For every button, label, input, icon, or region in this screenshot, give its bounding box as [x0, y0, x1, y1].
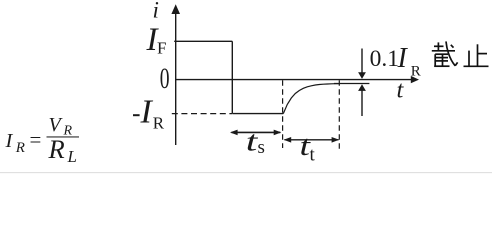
svg-text:I: I [5, 130, 14, 152]
dashed vertical at end of ts [282, 80, 284, 148]
waveform: falling edge [231, 41, 233, 113]
svg-text:I: I [397, 43, 409, 74]
waveform: recovery curve [283, 84, 339, 114]
svg-text:0.1: 0.1 [370, 46, 399, 72]
svg-text:F: F [157, 39, 166, 58]
svg-text:t: t [397, 76, 405, 103]
svg-text:s: s [258, 137, 265, 158]
svg-text:R: R [411, 63, 421, 79]
svg-text:=: = [30, 128, 42, 152]
0.1IR level line [334, 83, 369, 85]
svg-text:R: R [153, 113, 165, 132]
time axis t (horizontal) [175, 79, 412, 81]
ts interval arrow [232, 131, 281, 133]
waveform: reverse current level -IR [232, 113, 283, 115]
formula IR = VR / RL [5, 114, 80, 166]
止 [477, 44, 479, 66]
waveform: forward current level IF [174, 40, 232, 42]
current axis arrowhead [171, 4, 180, 14]
svg-text:0: 0 [160, 62, 170, 95]
dashed vertical at end of tt [338, 80, 340, 150]
svg-text:R: R [48, 134, 65, 164]
svg-text:i: i [153, 0, 159, 23]
svg-text:I: I [140, 93, 154, 130]
time axis arrowhead [411, 76, 419, 83]
0.1IR up arrow [361, 91, 363, 117]
截 [434, 45, 444, 47]
svg-text:t: t [310, 145, 316, 166]
svg-text:L: L [67, 147, 77, 166]
dashed -IR level line [172, 113, 232, 115]
text 截止 (cutoff) [432, 41, 489, 67]
label -IR [133, 114, 140, 116]
current axis i (vertical) [175, 13, 177, 146]
svg-text:R: R [15, 140, 25, 156]
bottom rule [0, 172, 492, 174]
0.1IR down arrow [361, 49, 363, 73]
tt interval arrow [285, 139, 339, 141]
